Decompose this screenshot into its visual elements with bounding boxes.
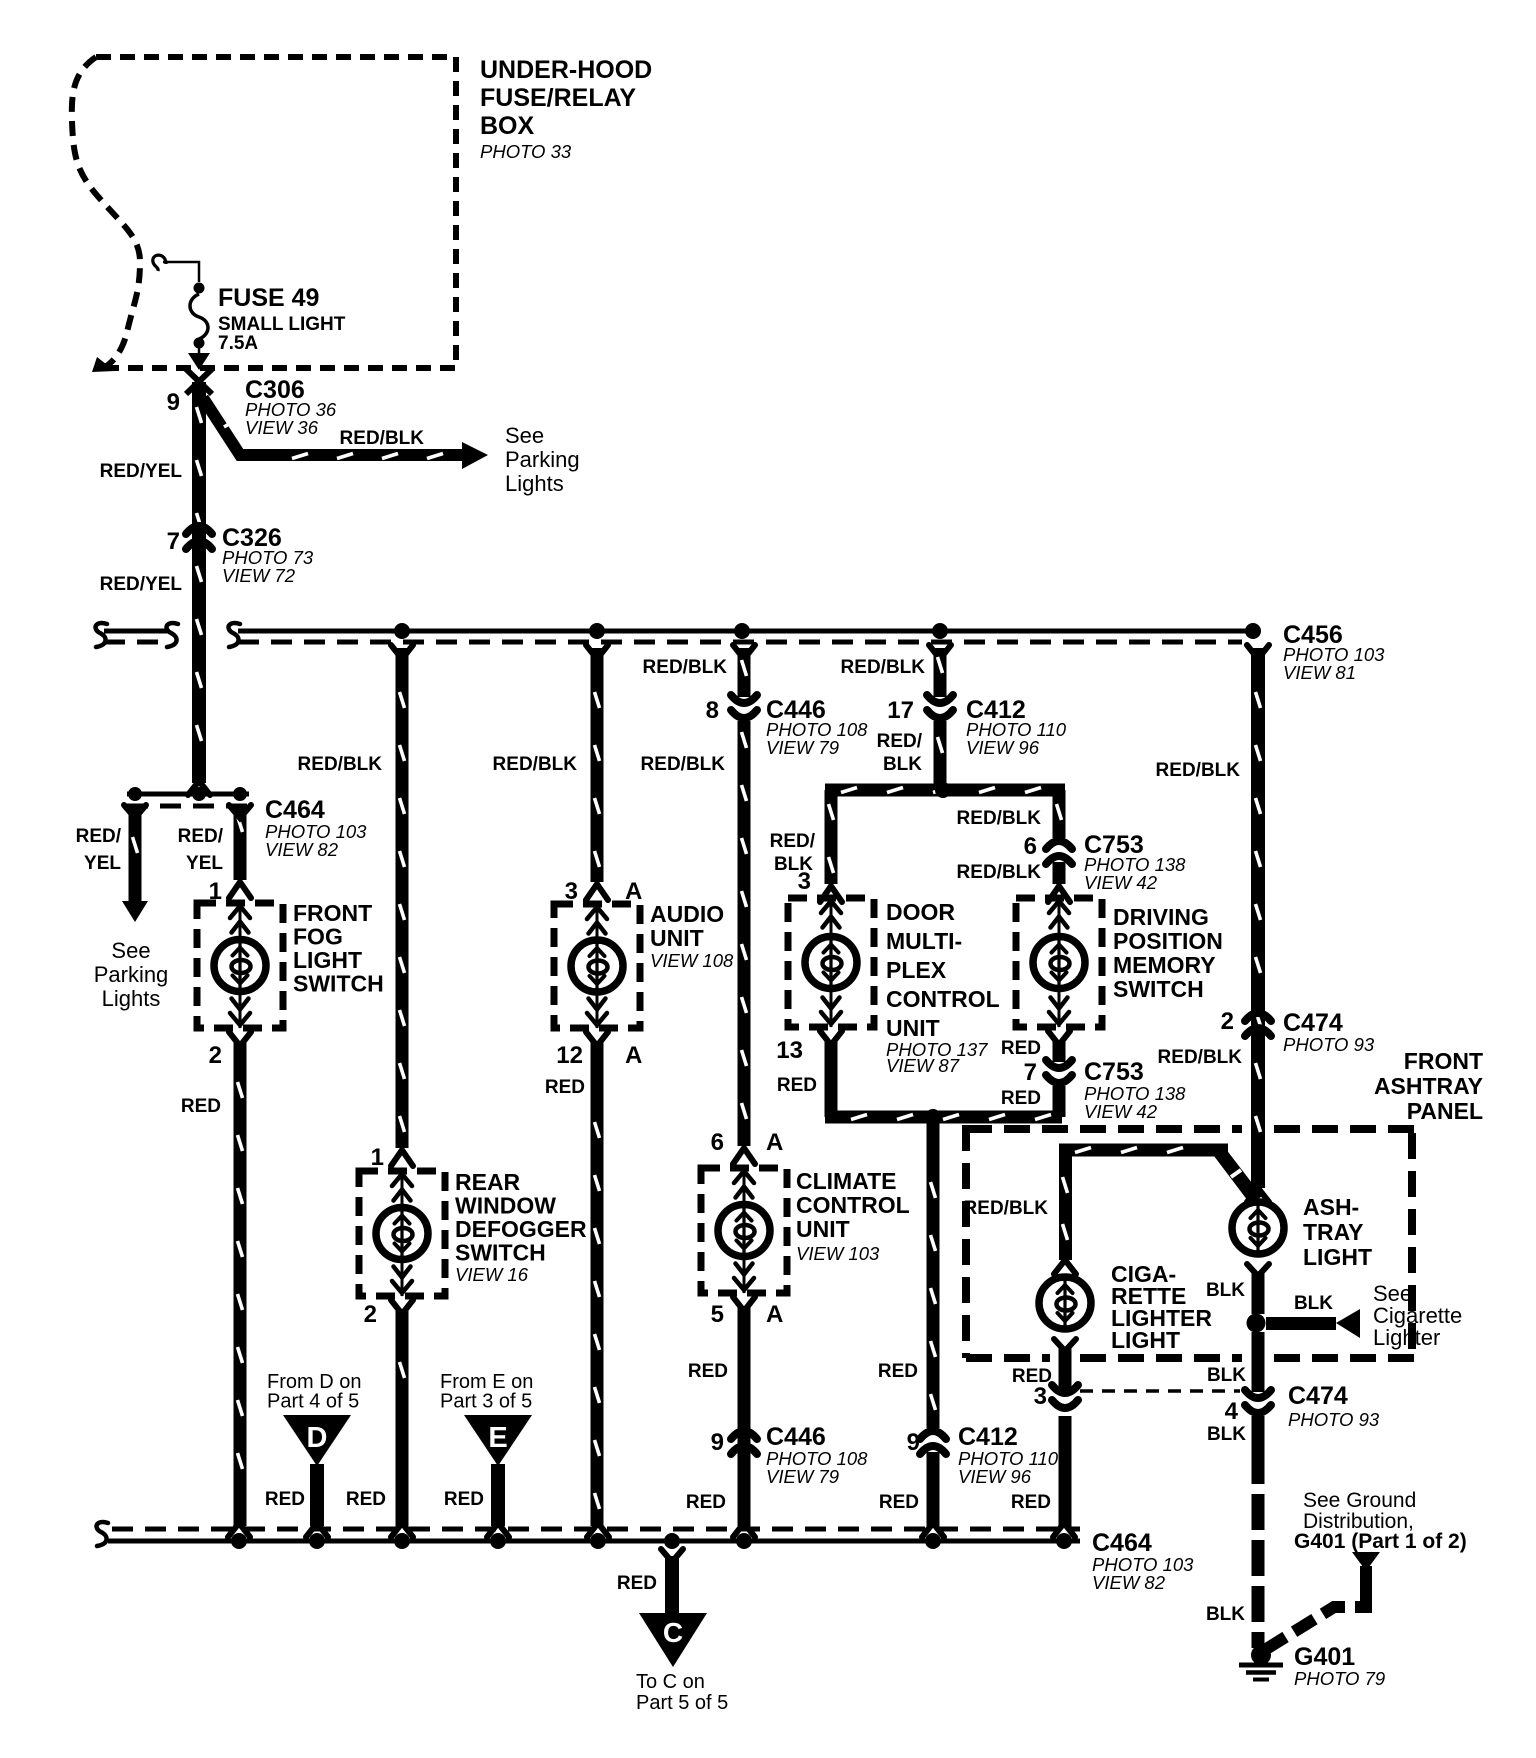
svg-text:C474: C474 bbox=[1288, 1382, 1348, 1410]
svg-text:6: 6 bbox=[711, 1129, 724, 1156]
svg-text:RED/BLK: RED/BLK bbox=[643, 657, 728, 678]
svg-text:12: 12 bbox=[556, 1042, 583, 1069]
svg-text:RED/YEL: RED/YEL bbox=[100, 574, 183, 595]
svg-text:FRONT: FRONT bbox=[293, 900, 372, 926]
svg-text:VIEW 72: VIEW 72 bbox=[222, 565, 296, 586]
svg-text:MULTI-: MULTI- bbox=[886, 928, 962, 954]
svg-text:E: E bbox=[488, 1422, 507, 1454]
svg-text:9: 9 bbox=[167, 389, 180, 416]
svg-text:Lights: Lights bbox=[102, 986, 161, 1011]
svg-text:VIEW 87: VIEW 87 bbox=[886, 1055, 960, 1076]
svg-text:TRAY: TRAY bbox=[1303, 1219, 1364, 1245]
svg-text:RED/BLK: RED/BLK bbox=[641, 754, 726, 775]
svg-text:RED: RED bbox=[777, 1075, 817, 1096]
svg-text:VIEW 42: VIEW 42 bbox=[1084, 1101, 1158, 1122]
svg-text:C412: C412 bbox=[958, 1423, 1018, 1451]
svg-text:DEFOGGER: DEFOGGER bbox=[455, 1216, 587, 1242]
svg-text:5: 5 bbox=[711, 1301, 724, 1328]
svg-text:SWITCH: SWITCH bbox=[455, 1240, 546, 1266]
svg-text:RED: RED bbox=[688, 1361, 728, 1382]
svg-text:C446: C446 bbox=[766, 1423, 826, 1451]
svg-text:17: 17 bbox=[887, 697, 914, 724]
svg-text:C464: C464 bbox=[265, 796, 325, 824]
svg-text:To C on: To C on bbox=[636, 1671, 705, 1693]
svg-text:G401 (Part 1 of 2): G401 (Part 1 of 2) bbox=[1294, 1530, 1467, 1553]
svg-text:RED/: RED/ bbox=[770, 831, 816, 852]
svg-text:RED: RED bbox=[444, 1489, 484, 1510]
svg-text:PHOTO 93: PHOTO 93 bbox=[1283, 1034, 1375, 1055]
svg-text:RED: RED bbox=[346, 1489, 386, 1510]
svg-text:RED: RED bbox=[265, 1489, 305, 1510]
svg-text:RED: RED bbox=[617, 1573, 657, 1594]
svg-text:VIEW 79: VIEW 79 bbox=[766, 1466, 839, 1487]
svg-text:RED/BLK: RED/BLK bbox=[1158, 1047, 1243, 1068]
svg-text:3: 3 bbox=[798, 868, 811, 895]
svg-text:13: 13 bbox=[776, 1037, 803, 1064]
svg-text:C: C bbox=[663, 1617, 683, 1648]
svg-text:WINDOW: WINDOW bbox=[455, 1193, 556, 1219]
svg-text:RED: RED bbox=[181, 1096, 221, 1117]
svg-text:SWITCH: SWITCH bbox=[1113, 976, 1204, 1002]
svg-text:2: 2 bbox=[364, 1301, 377, 1328]
svg-text:See: See bbox=[111, 938, 150, 963]
svg-text:BLK: BLK bbox=[883, 754, 922, 775]
svg-text:RED/BLK: RED/BLK bbox=[957, 862, 1042, 883]
svg-text:SWITCH: SWITCH bbox=[293, 971, 384, 997]
svg-text:VIEW 108: VIEW 108 bbox=[650, 950, 734, 971]
svg-text:BLK: BLK bbox=[1294, 1293, 1333, 1314]
svg-text:Parking: Parking bbox=[94, 962, 169, 987]
svg-text:RED: RED bbox=[879, 1492, 919, 1513]
svg-text:Lighter: Lighter bbox=[1373, 1325, 1440, 1350]
svg-text:RED/BLK: RED/BLK bbox=[493, 754, 578, 775]
svg-text:REAR: REAR bbox=[455, 1169, 521, 1195]
svg-text:7.5A: 7.5A bbox=[218, 333, 258, 354]
svg-text:See: See bbox=[505, 423, 544, 448]
svg-text:DOOR: DOOR bbox=[886, 899, 955, 925]
svg-text:3: 3 bbox=[1034, 1383, 1047, 1410]
svg-text:6: 6 bbox=[1024, 833, 1037, 860]
svg-text:CONTROL: CONTROL bbox=[796, 1192, 910, 1218]
svg-text:FUSE/RELAY: FUSE/RELAY bbox=[480, 84, 636, 112]
svg-text:PLEX: PLEX bbox=[886, 957, 947, 983]
svg-text:RED: RED bbox=[878, 1361, 918, 1382]
svg-text:RED: RED bbox=[1011, 1492, 1051, 1513]
svg-text:VIEW 16: VIEW 16 bbox=[455, 1264, 529, 1285]
svg-text:BLK: BLK bbox=[1207, 1424, 1246, 1445]
svg-text:RED: RED bbox=[545, 1077, 585, 1098]
svg-text:RED/BLK: RED/BLK bbox=[957, 808, 1042, 829]
svg-text:UNIT: UNIT bbox=[796, 1216, 850, 1242]
svg-text:VIEW 96: VIEW 96 bbox=[958, 1466, 1032, 1487]
svg-text:BLK: BLK bbox=[1207, 1365, 1246, 1386]
svg-text:PHOTO 79: PHOTO 79 bbox=[1294, 1668, 1385, 1689]
svg-text:RED/YEL: RED/YEL bbox=[100, 461, 183, 482]
svg-text:MEMORY: MEMORY bbox=[1113, 952, 1216, 978]
svg-text:RED: RED bbox=[686, 1492, 726, 1513]
svg-text:A: A bbox=[766, 1301, 783, 1328]
svg-text:1: 1 bbox=[371, 1144, 384, 1171]
svg-text:G401: G401 bbox=[1294, 1643, 1355, 1671]
svg-text:A: A bbox=[625, 1042, 642, 1069]
svg-text:DRIVING: DRIVING bbox=[1113, 904, 1209, 930]
svg-text:Lights: Lights bbox=[505, 471, 564, 496]
svg-text:AUDIO: AUDIO bbox=[650, 901, 724, 927]
svg-text:Part 3 of 5: Part 3 of 5 bbox=[440, 1391, 532, 1413]
svg-text:CLIMATE: CLIMATE bbox=[796, 1168, 897, 1194]
svg-text:7: 7 bbox=[167, 528, 180, 555]
svg-text:VIEW 82: VIEW 82 bbox=[1092, 1572, 1166, 1593]
svg-text:9: 9 bbox=[907, 1429, 920, 1456]
svg-text:A: A bbox=[766, 1129, 783, 1156]
svg-text:FOG: FOG bbox=[293, 924, 343, 950]
svg-text:PANEL: PANEL bbox=[1407, 1098, 1483, 1124]
svg-text:BLK: BLK bbox=[1206, 1280, 1245, 1301]
svg-text:RED: RED bbox=[1001, 1088, 1041, 1109]
svg-text:CONTROL: CONTROL bbox=[886, 986, 1000, 1012]
svg-text:RED/: RED/ bbox=[178, 826, 224, 847]
svg-text:LIGHT: LIGHT bbox=[293, 947, 362, 973]
svg-text:See Ground: See Ground bbox=[1303, 1489, 1416, 1512]
svg-text:RED/BLK: RED/BLK bbox=[964, 1198, 1049, 1219]
svg-text:VIEW 82: VIEW 82 bbox=[265, 839, 339, 860]
svg-text:Part 4 of 5: Part 4 of 5 bbox=[267, 1391, 359, 1413]
svg-text:9: 9 bbox=[711, 1429, 724, 1456]
svg-text:UNDER-HOOD: UNDER-HOOD bbox=[480, 56, 652, 84]
svg-text:PHOTO 93: PHOTO 93 bbox=[1288, 1409, 1380, 1430]
svg-text:RED/: RED/ bbox=[76, 826, 122, 847]
svg-text:RED: RED bbox=[1001, 1038, 1041, 1059]
svg-text:LIGHT: LIGHT bbox=[1111, 1327, 1180, 1353]
svg-text:ASH-: ASH- bbox=[1303, 1194, 1359, 1220]
svg-text:FUSE 49: FUSE 49 bbox=[218, 284, 319, 312]
svg-text:VIEW 81: VIEW 81 bbox=[1283, 662, 1356, 683]
svg-text:UNIT: UNIT bbox=[650, 925, 704, 951]
svg-text:RED/: RED/ bbox=[877, 731, 923, 752]
svg-text:YEL: YEL bbox=[186, 853, 223, 874]
svg-text:C753: C753 bbox=[1084, 1058, 1144, 1086]
svg-text:POSITION: POSITION bbox=[1113, 928, 1223, 954]
svg-text:PHOTO 33: PHOTO 33 bbox=[480, 141, 572, 162]
svg-text:7: 7 bbox=[1024, 1059, 1037, 1086]
svg-text:Part 5 of 5: Part 5 of 5 bbox=[636, 1692, 728, 1714]
svg-text:BLK: BLK bbox=[1206, 1604, 1245, 1625]
svg-text:FRONT: FRONT bbox=[1404, 1048, 1483, 1074]
svg-text:2: 2 bbox=[1221, 1008, 1234, 1035]
svg-text:SMALL LIGHT: SMALL LIGHT bbox=[218, 314, 346, 335]
svg-text:VIEW 79: VIEW 79 bbox=[766, 737, 839, 758]
svg-text:VIEW 36: VIEW 36 bbox=[245, 417, 319, 438]
svg-text:BOX: BOX bbox=[480, 112, 535, 140]
svg-text:RED/BLK: RED/BLK bbox=[1156, 760, 1241, 781]
svg-text:4: 4 bbox=[1225, 1398, 1239, 1425]
svg-text:8: 8 bbox=[706, 697, 719, 724]
svg-text:VIEW 42: VIEW 42 bbox=[1084, 872, 1158, 893]
svg-text:YEL: YEL bbox=[84, 853, 121, 874]
svg-text:VIEW 96: VIEW 96 bbox=[966, 737, 1040, 758]
svg-text:2: 2 bbox=[209, 1042, 222, 1069]
svg-text:VIEW 103: VIEW 103 bbox=[796, 1243, 880, 1264]
svg-text:C464: C464 bbox=[1092, 1529, 1152, 1557]
svg-text:RED/BLK: RED/BLK bbox=[298, 754, 383, 775]
svg-text:C474: C474 bbox=[1283, 1009, 1343, 1037]
svg-text:UNIT: UNIT bbox=[886, 1015, 940, 1041]
svg-text:ASHTRAY: ASHTRAY bbox=[1374, 1073, 1483, 1099]
svg-text:Parking: Parking bbox=[505, 447, 580, 472]
svg-text:D: D bbox=[307, 1422, 328, 1454]
svg-text:RED/BLK: RED/BLK bbox=[841, 657, 926, 678]
svg-text:LIGHT: LIGHT bbox=[1303, 1244, 1372, 1270]
svg-text:RED/BLK: RED/BLK bbox=[340, 428, 425, 449]
